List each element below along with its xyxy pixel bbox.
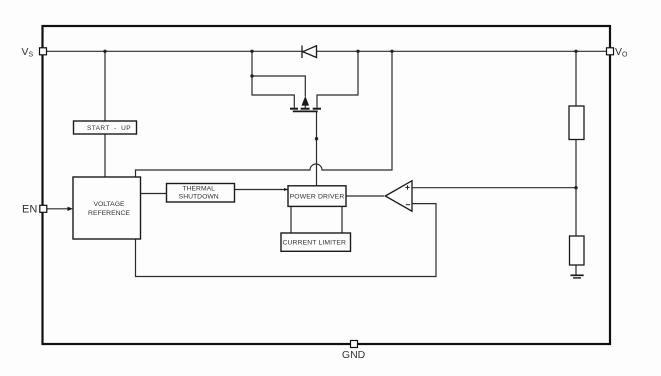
wire: EN input to VOLTAGE REFERENCE [47, 208, 68, 210]
pin Vo [607, 48, 614, 55]
wire: VOLTAGE REFERENCE to THERMAL SHUTDOWN [141, 193, 167, 195]
node: rail junction at divider [574, 50, 577, 53]
svg-text:SHUTDOWN: SHUTDOWN [179, 193, 219, 200]
svg-text:EN: EN [22, 204, 37, 216]
block CURRENT LIMITER [281, 233, 351, 251]
block START-UP [74, 121, 137, 134]
outer case border [43, 26, 611, 344]
resistor R2 lower divider [570, 236, 585, 265]
wire: THERMAL SHUTDOWN to POWER DRIVER [235, 189, 289, 191]
wire: output divider column [575, 51, 577, 274]
arrowhead: EN into VOLTAGE REFERENCE [68, 207, 74, 211]
wire: bulk branch with body connection [252, 76, 305, 108]
wire: gate wire from transistor to POWER DRIVER [316, 112, 318, 186]
svg-text:REFERENCE: REFERENCE [88, 210, 130, 217]
node: rail junction at sense line [390, 50, 393, 53]
node: divider midpoint junction [574, 186, 577, 189]
wire: POWER DRIVER to CURRENT LIMITER right [341, 206, 343, 233]
svg-text:VOLTAGE: VOLTAGE [93, 201, 125, 208]
op-amp U2 error amplifier [385, 181, 412, 212]
wire: Vs to Vo top rail [47, 50, 608, 52]
wire: error amplifier + input to divider node [412, 187, 576, 189]
wire: POWER DRIVER to CURRENT LIMITER left [290, 206, 292, 233]
block POWER DRIVER [288, 186, 346, 207]
pin GND [351, 341, 358, 348]
svg-text:POWER DRIVER: POWER DRIVER [290, 194, 345, 201]
svg-text:GND: GND [342, 349, 366, 361]
arrowhead: THERMAL SHUTDOWN into POWER DRIVER [284, 188, 288, 191]
pin EN [40, 205, 47, 212]
block THERMAL SHUTDOWN [167, 184, 235, 203]
transistor Q1 pass MOSFET [290, 96, 321, 111]
node: rail junction at drain branch [356, 50, 359, 53]
node: gate wire junction [315, 137, 318, 140]
resistor R1 upper divider [569, 106, 584, 140]
node: bulk junction [250, 74, 253, 77]
block VOLTAGE REFERENCE U1 [73, 177, 141, 239]
wire: drain branch from transistor to rail [317, 51, 358, 107]
svg-text:CURRENT LIMITER: CURRENT LIMITER [282, 239, 346, 246]
svg-text:VS: VS [22, 46, 34, 59]
node: rail junction at source branch [250, 50, 253, 53]
svg-text:THERMAL: THERMAL [182, 185, 215, 192]
diode D1 [302, 46, 317, 59]
pin Vs [40, 48, 47, 55]
ground [571, 275, 584, 278]
wire: start-up tap from rail to START-UP to VOLTAGE REFERENCE [104, 51, 106, 177]
wire: POWER DRIVER to error amplifier output [346, 195, 384, 197]
node: rail junction at start-up tap [103, 50, 106, 53]
wire: Vo sense line from rail with hop over gate wire [136, 51, 437, 276]
svg-text:VO: VO [615, 46, 628, 59]
wire: source branch from rail to pass transistor [252, 51, 294, 107]
svg-text:START - UP: START - UP [87, 125, 131, 132]
